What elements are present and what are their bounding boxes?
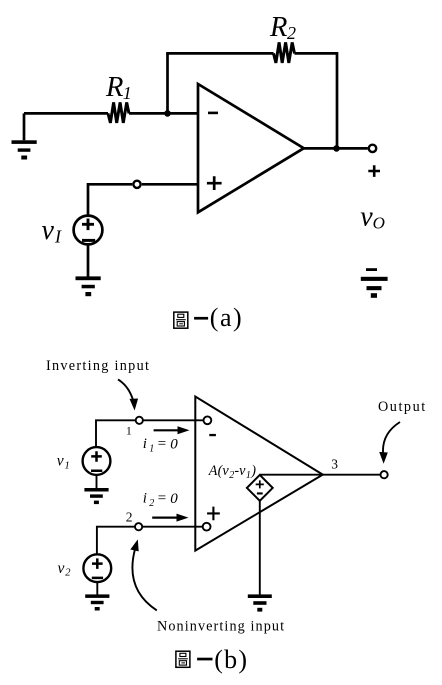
svg-text:(b): (b) [214, 645, 248, 674]
dependent source: wire from diamond top to apex [260, 474, 323, 476]
svg-text:1: 1 [126, 426, 132, 438]
svg-text:O: O [373, 214, 385, 233]
wire: below vI [87, 244, 90, 276]
svg-text:0: 0 [170, 436, 178, 452]
svg-text:1: 1 [65, 461, 70, 472]
wire: feedback left segment [166, 52, 273, 55]
svg-text:2: 2 [287, 23, 296, 43]
svg-text:v: v [57, 453, 64, 470]
caption 圖一(b) [176, 645, 248, 674]
voltage source vI [74, 216, 103, 245]
resistor R2 [274, 42, 295, 63]
svg-text:1: 1 [123, 83, 132, 103]
wire: noninverting input wire [97, 527, 203, 554]
svg-text:-v: -v [234, 463, 246, 479]
svg-text:R: R [105, 72, 123, 103]
label: - polarity above right ground [366, 268, 377, 271]
wire: output from op-amp apex [304, 147, 368, 150]
svg-text:(v: (v [218, 463, 230, 479]
svg-text:2: 2 [149, 498, 154, 509]
wire: vertical from node up to feedback [166, 53, 169, 113]
resistor R1 [108, 102, 129, 123]
svg-text:2: 2 [65, 568, 71, 579]
op-amp U1 [198, 84, 304, 212]
svg-text:2: 2 [126, 509, 133, 524]
ground under vI [76, 276, 101, 296]
terminal 1 [136, 417, 143, 424]
ground under v2 [85, 594, 109, 610]
svg-text:v: v [42, 215, 55, 246]
arrow: curved pointer to terminal 2 [132, 548, 156, 610]
ground (output reference) [361, 277, 388, 298]
wire: left input segment from ground corner to R1 [24, 112, 108, 115]
node: output feedback junction [333, 145, 340, 152]
current arrow i2 [152, 516, 178, 518]
current arrow i1 [154, 429, 179, 431]
svg-text:Inverting input: Inverting input [46, 358, 150, 374]
arrow: curved pointer to terminal 1 [118, 380, 134, 402]
svg-text:(a): (a) [210, 303, 243, 332]
svg-text:v: v [58, 560, 65, 577]
ground under v1 [84, 488, 108, 504]
arrow: curved pointer to output terminal [383, 422, 400, 455]
wire: inverting input wire [96, 420, 204, 446]
svg-text:): ) [250, 463, 256, 479]
terminal: open circle on + input wire [133, 181, 140, 188]
svg-text:3: 3 [331, 457, 338, 472]
svg-text:Output: Output [378, 399, 427, 415]
svg-text:1: 1 [149, 443, 154, 454]
svg-text:Noninverting input: Noninverting input [157, 618, 285, 634]
node: junction of R1, feedback, op-amp input [164, 110, 171, 117]
wire: feedback right segment and down to output node [295, 53, 338, 148]
svg-text:=: = [157, 491, 167, 507]
svg-text:I: I [54, 227, 62, 247]
svg-text:A: A [208, 463, 218, 479]
wire below v1 [96, 475, 98, 488]
terminal: output open circle [369, 145, 376, 152]
wire below v2 [96, 582, 98, 595]
svg-text:v: v [360, 202, 373, 233]
svg-text:1: 1 [246, 470, 251, 481]
terminal 3 [381, 471, 388, 478]
wire: R1 to op-amp inverting input [129, 112, 198, 115]
op-amp (model) triangle [195, 397, 322, 551]
wire: noninverting input wire with corner to vI [88, 184, 198, 214]
voltage source v2 [83, 554, 111, 582]
svg-text:i: i [143, 491, 147, 507]
wire: output from apex [323, 474, 381, 476]
voltage source v1 [83, 447, 111, 475]
svg-text:R: R [269, 12, 287, 43]
terminal 2 [135, 523, 142, 530]
caption 圖一(a) [174, 303, 243, 332]
svg-text:=: = [157, 436, 167, 452]
wire: diamond bottom to ground [259, 501, 261, 595]
label: + output polarity [368, 165, 380, 177]
svg-text:0: 0 [170, 491, 178, 507]
dependent source diamond A(v2-v1) [247, 475, 273, 501]
ground (left, at inverting input source side) [12, 113, 37, 159]
ground under dependent source [248, 594, 272, 611]
svg-text:i: i [143, 436, 147, 452]
